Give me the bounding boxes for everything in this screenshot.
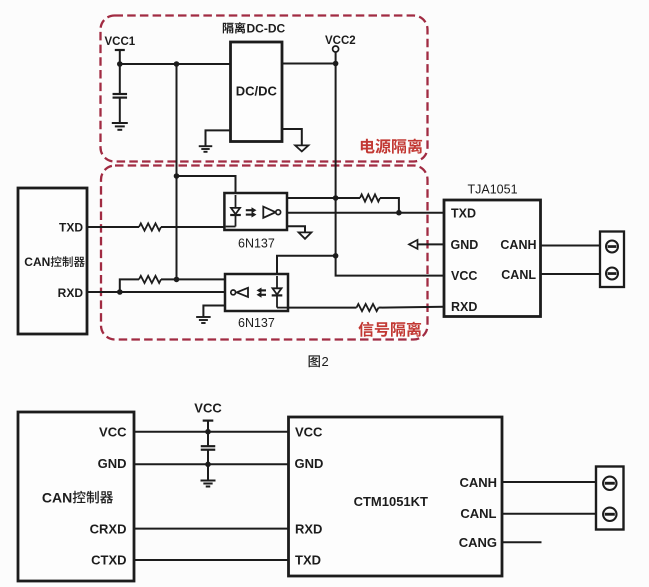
- label 6N137 (U2): [238, 316, 275, 330]
- node: VCC2 to opto2 anode: [333, 253, 339, 259]
- svg-text:CANH: CANH: [500, 238, 536, 252]
- label 隔离DC-DC: [223, 21, 286, 35]
- wire: VCC1 rail to DC/DC input: [120, 63, 231, 65]
- node: VCC1 rail junction: [117, 61, 123, 67]
- svg-text:VCC: VCC: [99, 424, 127, 439]
- capacitor C2 (VCC decoupling): [201, 432, 216, 465]
- svg-text:TXD: TXD: [451, 207, 476, 221]
- DC/DC converter (隔离DC-DC): [231, 42, 283, 142]
- ground (DC/DC secondary, arrow style): [282, 129, 308, 151]
- ground (TJA1051 GND, arrow left): [409, 240, 444, 249]
- wire: GND line: [134, 463, 289, 465]
- node: VCC cap junction: [205, 429, 211, 435]
- label TJA1051: [468, 182, 518, 196]
- svg-text:GND: GND: [295, 456, 324, 471]
- label 电源隔离: [361, 139, 422, 154]
- svg-text:RXD: RXD: [58, 286, 84, 300]
- optocoupler U1 6N137 (TXD): [224, 193, 287, 230]
- node: VCC2 pull-up tap: [333, 195, 339, 201]
- label CAN控制器 (bottom): [42, 489, 113, 505]
- svg-text:CANL: CANL: [501, 268, 536, 282]
- CAN controller box (bottom figure): [18, 412, 134, 581]
- wire: CTXD to TXD: [134, 559, 289, 561]
- label CTM1051KT: [354, 494, 428, 509]
- signal isolation dashed box (信号隔离 region): [101, 166, 428, 340]
- connector J2 (CAN bus terminal): [596, 467, 624, 530]
- wire CANL (top): [541, 273, 601, 275]
- power terminal VCC2: [325, 35, 356, 64]
- CTM1051KT module: [289, 417, 503, 576]
- wire: VCC1 to opto1 anode: [177, 176, 236, 193]
- svg-text:DC/DC: DC/DC: [236, 84, 278, 99]
- wire: VCC2 rail to opto2 anode: [277, 256, 336, 274]
- svg-text:VCC: VCC: [194, 401, 222, 416]
- svg-text:RXD: RXD: [451, 300, 477, 314]
- svg-text:CAN: CAN: [24, 255, 50, 269]
- wire: DC/DC output: [282, 63, 336, 65]
- svg-text:CAN: CAN: [42, 489, 72, 505]
- wire CANH (bottom): [502, 481, 596, 483]
- label CAN控制器 (top): [24, 255, 85, 269]
- node: VCC2 junction: [333, 61, 339, 67]
- svg-text:CTXD: CTXD: [91, 553, 126, 568]
- wire CANL (bottom): [502, 513, 596, 515]
- wire: RXD line: [87, 291, 225, 293]
- power isolation dashed box (电源隔离 region): [101, 16, 428, 162]
- svg-text:VCC2: VCC2: [325, 35, 356, 47]
- wire: VCC to module: [134, 431, 289, 433]
- svg-text:GND: GND: [98, 456, 127, 471]
- optocoupler U2 6N137 (RXD): [225, 274, 288, 311]
- label 6N137 (U1): [238, 237, 275, 251]
- wire: VCC1 rail down: [176, 64, 178, 279]
- svg-text:CANL: CANL: [460, 506, 496, 521]
- svg-text:VCC: VCC: [295, 424, 323, 439]
- wire: opto1 VCC pin to VCC2 rail: [287, 197, 336, 199]
- node: TXD net junction: [396, 210, 402, 216]
- ground (under C1): [112, 123, 128, 130]
- wire: VCC2 rail down to TJA1051 VCC: [336, 64, 444, 276]
- svg-text:CANG: CANG: [459, 535, 497, 550]
- svg-text:CANH: CANH: [459, 475, 497, 490]
- ground (DC/DC primary): [199, 130, 231, 151]
- node: rail to opto branch: [174, 61, 180, 67]
- svg-text:RXD: RXD: [295, 521, 322, 536]
- svg-text:6N137: 6N137: [238, 316, 275, 330]
- ground (bottom figure): [201, 464, 216, 486]
- resistor (RXD pull-up): [120, 276, 225, 292]
- node: GND cap junction: [205, 462, 211, 468]
- wire: CRXD to RXD: [134, 528, 289, 530]
- power terminal VCC (bottom): [194, 401, 222, 432]
- svg-text:6N137: 6N137: [238, 237, 275, 251]
- resistor (TXD pull-up): [336, 194, 399, 212]
- resistor (TXD series): [87, 223, 224, 230]
- capacitor C1 (VCC1 decoupling): [113, 64, 128, 123]
- wire CANG stub: [502, 541, 542, 543]
- svg-text:VCC: VCC: [451, 269, 477, 283]
- svg-text:CTM1051KT: CTM1051KT: [354, 494, 428, 509]
- svg-text:2: 2: [322, 354, 329, 369]
- svg-text:TXD: TXD: [59, 221, 83, 235]
- node: opto1 anode feed: [174, 173, 180, 179]
- caption 图2: [309, 354, 329, 369]
- CAN controller box (top figure): [18, 188, 87, 334]
- svg-text:CRXD: CRXD: [90, 521, 127, 536]
- wire CANH (top): [541, 245, 601, 247]
- node: RXD pull-up tap: [117, 289, 123, 295]
- svg-text:DC-DC: DC-DC: [247, 21, 286, 35]
- node: end of VCC1 rail: [174, 277, 180, 283]
- ground (opto2 GND): [196, 306, 225, 324]
- connector J1 (CAN bus terminal): [600, 232, 624, 288]
- svg-text:VCC1: VCC1: [105, 36, 136, 48]
- svg-text:GND: GND: [451, 238, 479, 252]
- TJA1051 transceiver: [444, 200, 541, 317]
- resistor (RXD series to TJA1051): [288, 304, 444, 311]
- wire: opto1 output to TJA1051 TXD: [287, 212, 444, 214]
- svg-text:TJA1051: TJA1051: [468, 182, 518, 196]
- label 信号隔离: [358, 322, 421, 337]
- power terminal VCC1: [105, 36, 136, 64]
- ground (opto1 GND, arrow style): [287, 226, 311, 239]
- svg-text:TXD: TXD: [295, 553, 321, 568]
